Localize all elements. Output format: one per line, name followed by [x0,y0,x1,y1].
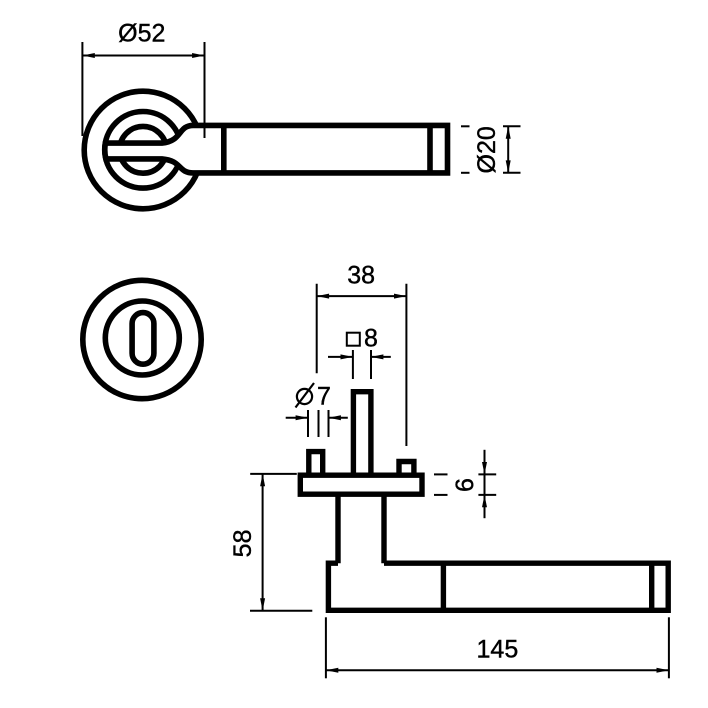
svg-text:9: 9 [449,478,477,492]
rose plate [300,475,422,494]
arrow left [317,294,329,299]
arrow pointing right at left ext [341,354,353,359]
grip outline [328,563,668,610]
svg-text:7: 7 [317,382,331,410]
arrow right [657,668,669,673]
neck left edge [335,494,340,563]
keyhole slot [132,313,154,365]
svg-text:38: 38 [347,262,375,290]
arrow left [326,668,338,673]
svg-text:145: 145 [477,636,519,664]
collar circle [105,112,182,189]
svg-text:58: 58 [229,529,257,557]
arrow right [192,53,204,58]
neck circle (Ø20 end-on) [120,126,167,173]
svg-text:Ø20: Ø20 [473,126,501,173]
label Ø7 (drawn slashed circle + digit) [297,389,312,404]
arrow down [506,160,511,172]
rose outer circle [84,91,202,209]
lever end cap line [427,125,433,172]
arrow right [394,294,406,299]
dimension line [82,55,204,57]
arrow down [260,598,265,610]
arrow pointing right [296,415,308,420]
lever joint line [221,125,227,172]
square symbol [347,333,360,346]
svg-text:Ø52: Ø52 [118,20,165,48]
svg-text:8: 8 [364,324,378,352]
extension line left [81,42,83,136]
spindle (square 8) [353,392,371,476]
arrow pointing down [482,462,487,474]
neck right edge [381,494,386,563]
arrow up [260,474,265,486]
grip end cap line [649,563,654,610]
escutcheon inner circle [105,301,179,375]
arrow pointing left at right ext [371,354,383,359]
arrow up [506,126,511,138]
right screw post [399,462,414,476]
arrow pointing left [329,415,341,420]
left screw post [309,452,323,476]
arrow pointing up [482,495,487,507]
escutcheon outer circle [83,280,201,398]
lever silhouette (white fill clips circles) [105,125,448,172]
grip joint line [441,563,446,610]
arrow left [82,53,94,58]
extension line right [204,42,206,138]
